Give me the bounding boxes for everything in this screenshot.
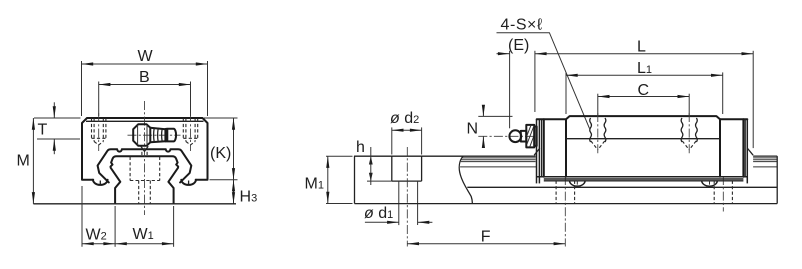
svg-text:W: W: [138, 48, 154, 65]
svg-text:L1: L1: [637, 60, 652, 77]
block cross-section outline: [82, 118, 208, 180]
grease passage hidden lines: [142, 152, 147, 156]
svg-text:W2: W2: [86, 226, 107, 243]
svg-text:(K): (K): [210, 145, 231, 162]
bolt hole centerline left: [98, 113, 100, 151]
through hole in section: [398, 181, 400, 225]
block bolt hole left (hidden): [92, 119, 106, 145]
dimension M: [17, 118, 34, 204]
right end seal plates: [744, 119, 746, 177]
svg-text:L: L: [637, 39, 646, 56]
left end cap: [543, 119, 545, 177]
block bolt hole right (hidden): [183, 119, 197, 145]
rail mounting hole hidden (left, under block): [556, 181, 575, 204]
svg-text:N: N: [467, 121, 479, 138]
svg-text:T: T: [38, 121, 48, 138]
dimension φd2: [390, 110, 422, 155]
dimension F: [407, 228, 565, 245]
right end cap edge: [742, 119, 744, 177]
top outline: [537, 116, 748, 119]
svg-text:H3: H3: [240, 189, 258, 206]
rail mounting hole hidden (right, under block): [714, 181, 732, 204]
block top chamfer inner line: [86, 120, 204, 122]
dimension M1: [305, 156, 353, 203]
rail mounting hole hidden lines (counterbore): [130, 157, 160, 204]
svg-text:F: F: [481, 228, 491, 245]
svg-text:M: M: [17, 153, 30, 170]
svg-text:C: C: [638, 82, 650, 99]
body/cap boundary right: [719, 119, 721, 177]
dimension W1: [115, 206, 174, 247]
svg-text:(E): (E): [508, 37, 529, 54]
seal screw bump right (side view): [702, 181, 718, 187]
svg-text:ø d1: ø d1: [364, 205, 393, 222]
left end seal plates: [536, 119, 538, 183]
counterbore in section: [391, 156, 393, 181]
svg-text:M1: M1: [305, 176, 324, 193]
dimension N: [467, 108, 513, 147]
svg-text:ø d2: ø d2: [390, 110, 419, 127]
dimension (K): [204, 118, 238, 180]
svg-text:h: h: [356, 139, 365, 156]
dimension T: [34, 102, 81, 154]
dimension B: [99, 69, 191, 116]
block bolt hole right (4-S×ℓ, thread symbol): [681, 94, 697, 154]
grease nipple front view: [133, 124, 176, 151]
nipple centerline (side view): [478, 135, 537, 137]
left rail hole centerline: [564, 176, 566, 247]
block inner cavity and arms: [98, 149, 192, 182]
seal screw bump right (front view): [181, 180, 196, 185]
label 4-S×ℓ with leader: [497, 17, 590, 129]
block vertical centerline: [143, 101, 145, 215]
dimension (E): [497, 37, 530, 128]
body waist line: [566, 138, 720, 140]
ground line: [33, 203, 236, 205]
right rail hole centerline: [722, 176, 724, 212]
rail side view lines: [355, 156, 778, 204]
dimension L: [535, 39, 753, 149]
block side view outline: [534, 116, 753, 183]
bolt hole centerline right: [190, 113, 192, 151]
grease nipple side view: [509, 125, 536, 147]
dimension W: [82, 48, 208, 116]
break line (rail): [459, 156, 472, 203]
svg-text:W1: W1: [133, 226, 154, 243]
block bottom: [537, 176, 748, 178]
dimension H3: [234, 180, 258, 206]
svg-text:B: B: [139, 69, 150, 86]
nipple horizontal centerline: [128, 134, 181, 136]
svg-text:4-S×ℓ: 4-S×ℓ: [501, 17, 543, 34]
dimension L1: [566, 60, 723, 114]
seal screw bump left (side view): [570, 181, 586, 187]
hole centerline: [406, 147, 408, 247]
dimension W2: [82, 186, 115, 247]
seal screw bump left (front view): [93, 180, 108, 185]
dimension C: [598, 82, 689, 99]
dimension h: [356, 139, 392, 185]
dimension φd1: [364, 205, 432, 222]
rail longitudinal section (left of break): [355, 147, 467, 247]
rail cross-section outline: [111, 156, 179, 203]
block bolt hole left (4-S×ℓ, thread symbol): [590, 94, 606, 154]
